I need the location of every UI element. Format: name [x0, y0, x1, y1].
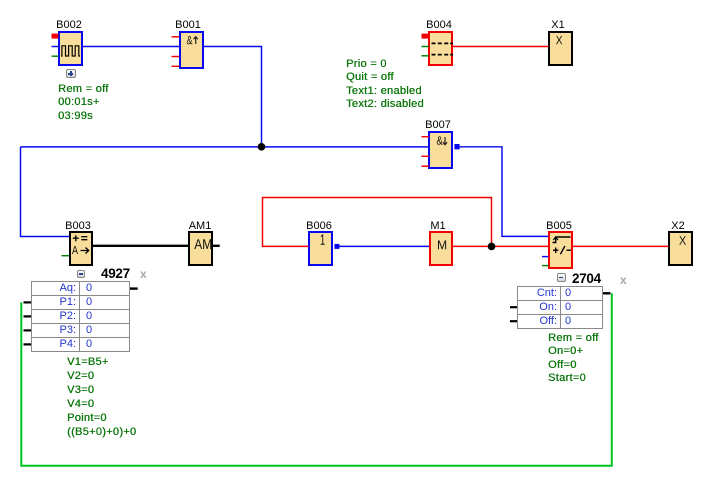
B004 message text dashes row 1 — [432, 42, 454, 44]
B005 table Off input stub — [510, 320, 518, 322]
B005 threshold edge symbol — [553, 237, 571, 243]
symbol 1 in B006 — [321, 234, 325, 244]
green parameter text under B002 — [58, 83, 109, 123]
wire B002 output to B001 input 2 — [83, 46, 180, 48]
collapse button under B003 — [77, 270, 86, 278]
analog output AM1 — [188, 231, 213, 266]
wire main horizontal bus y=147 from x=20.5 to B007 input 2 — [21, 146, 429, 148]
B003 table P4 input stub — [24, 343, 32, 345]
B004 message text dashes row 2 — [432, 54, 454, 56]
wire B003 output to AM1 (black thick) — [93, 245, 189, 247]
symbol ampersand in B001 — [187, 36, 193, 44]
B002 input 3 green stub — [52, 55, 59, 57]
B003 table P1 input stub — [24, 301, 32, 303]
green parameter text under B003 table — [67, 355, 136, 439]
pulse generator B002 — [58, 31, 83, 66]
B007 input 1 red stub — [422, 136, 430, 138]
message text B004 — [428, 31, 453, 67]
label B007 — [418, 120, 458, 131]
wire B007 output right, down, to B005 input 1 — [457, 147, 549, 237]
B003 table P2 input stub — [24, 315, 32, 317]
symbol M in M1 — [438, 241, 446, 250]
B001 input 3 red stub — [172, 56, 180, 58]
B001 input 4 red stub — [172, 65, 180, 67]
gray x after 4927 — [140, 268, 147, 280]
B007 input 3 red stub — [422, 155, 430, 157]
symbol AM in AM1 — [194, 239, 211, 249]
B004 input 1 red marker — [422, 34, 429, 39]
OR gate B006 — [308, 231, 333, 266]
wire B001 output right then down to node A — [203, 47, 262, 147]
wire feedback loop M1 out up over to B006 input (red) — [263, 198, 492, 247]
B004 input 2 green stub — [422, 46, 430, 48]
label M1 — [418, 221, 458, 232]
symbol ampersand in B007 — [437, 136, 443, 144]
label B004 — [419, 20, 459, 31]
wire green feedback B005 Cnt down around bottom to B003 P1 — [21, 293, 612, 466]
label B003 — [58, 221, 98, 232]
wire M1 output to B005 input 2 (red) — [453, 245, 549, 247]
up/down counter B005 — [548, 231, 573, 269]
output X1 — [548, 31, 573, 67]
gray x after 2704 — [620, 274, 627, 286]
symbol A in B003 — [72, 246, 78, 254]
B007 output connector square (blue) — [454, 144, 459, 149]
label B002 — [49, 20, 89, 31]
AM1 output stub (black) — [213, 245, 220, 247]
marker M1 — [429, 231, 454, 266]
node A junction dot — [258, 143, 266, 151]
label X2 — [658, 221, 698, 232]
B001 input 1 red stub — [172, 36, 180, 38]
B003 table Aq output stub (black) — [130, 287, 138, 289]
parameter table of B003 — [31, 281, 130, 352]
label AM1 — [180, 221, 220, 232]
node B junction dot on red wire — [488, 243, 496, 251]
B003 table P3 input stub — [24, 329, 32, 331]
expand button under B002 — [66, 69, 76, 78]
label B005 — [539, 221, 579, 232]
B003 arrow of A-> symbol — [81, 248, 89, 254]
B005 input 4 green stub — [542, 265, 549, 267]
value 2704 of B005 — [572, 273, 601, 284]
B004 input 3 green stub — [422, 55, 430, 57]
B005 plus-slash-minus symbol — [553, 246, 571, 254]
B005 edge arrow tick — [553, 237, 558, 240]
wire B004 output to X1 (red) — [453, 46, 549, 48]
analog math B003 — [69, 231, 94, 266]
B005 table On input stub — [510, 306, 518, 308]
B002 pulse generator waveform symbol — [61, 46, 80, 56]
label X1 — [538, 20, 578, 31]
wire B002 input stub In (blue) — [52, 46, 59, 48]
B007 input 4 red stub — [422, 165, 430, 167]
wire B006 output to M1 input — [337, 245, 429, 247]
B003 input 2 green stub — [62, 255, 70, 257]
symbol X in X1 — [556, 36, 562, 44]
wire B005 input 3 stub (blue) — [542, 256, 549, 258]
output X2 — [668, 231, 693, 266]
collapse button under B005 — [557, 273, 566, 282]
B003 plus-equals symbol — [73, 235, 88, 241]
value 4927 of B003 — [101, 268, 130, 279]
wire B005 output to X2 (red) — [573, 245, 669, 247]
B007 down-arrow of NAND-edge symbol — [443, 137, 447, 145]
B006 output connector square (blue) — [334, 244, 339, 249]
label B006 — [299, 221, 339, 232]
B001 up-arrow of AND-edge symbol — [194, 37, 198, 44]
B005 table Cnt output stub — [603, 292, 611, 294]
symbol X in X2 — [679, 236, 686, 245]
wire left leg down to B003 input 1 — [21, 147, 70, 237]
green parameter text under B005 table — [548, 332, 599, 386]
AND-edge gate B001 — [179, 31, 204, 70]
label B001 — [168, 20, 208, 31]
NAND-edge gate B007 — [428, 131, 453, 170]
green parameter text of B004 message block — [346, 58, 424, 112]
parameter table of B005 — [517, 286, 603, 329]
B002 input 1 red marker — [52, 34, 59, 39]
